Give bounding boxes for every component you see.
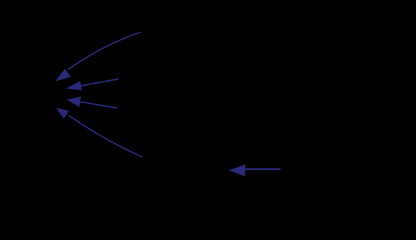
wire A1 shaft — [68, 32, 141, 70]
wire A4 shaft — [69, 115, 143, 157]
arrow A5: horizontal arrow at bottom right from (280.5,169) to tip (229,169.5) — [229, 165, 281, 177]
arrow A3: straight arrow from (117,108) to tip (66.9,99.6) — [67, 97, 117, 108]
A5 arrowhead — [229, 165, 245, 177]
arrow A2: straight arrow from (118.5,79) to tip (65.8,88.5) — [66, 79, 119, 90]
wire A3 shaft — [80, 102, 117, 108]
wire A2 shaft — [81, 79, 119, 86]
A4 arrowhead — [56, 108, 69, 119]
arrow A1: curved arrow from upper right (142,32) to tip (56,81) — [55, 32, 141, 81]
arrow A4: curved arrow from lower right (142,156.5) to tip (56.2,107.7) — [56, 108, 142, 157]
wire A5 shaft — [245, 168, 281, 170]
A2 arrowhead — [66, 81, 82, 90]
A1 arrowhead — [55, 69, 70, 82]
A3 arrowhead — [67, 97, 81, 107]
